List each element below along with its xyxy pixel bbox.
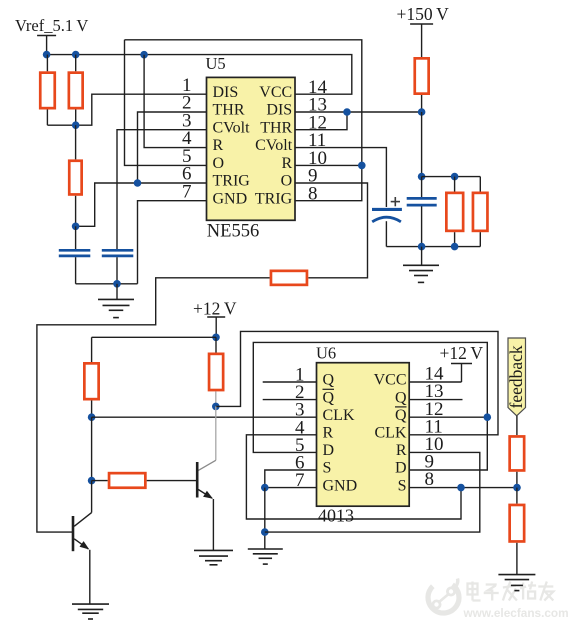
resistor R1 [46, 55, 48, 72]
node pin10 loop tie [261, 528, 269, 536]
svg-text:TRIG: TRIG [255, 190, 293, 207]
svg-text:D: D [323, 442, 335, 459]
capacitor C3 curved plate [372, 217, 401, 222]
wire R12 to ground [516, 543, 518, 575]
wire R1/R2 bottoms to pin1 DIS [47, 94, 206, 125]
wire U5 pin9 O to R4 [295, 183, 368, 278]
resistor R6 [215, 337, 217, 352]
svg-text:4013: 4013 [318, 506, 354, 526]
resistor R12 [516, 488, 518, 504]
wire Q1 collector riser [91, 481, 93, 513]
capacitor C4 [421, 177, 423, 197]
U6 pin2 Q overbar [323, 388, 335, 390]
ground symbol G1 [116, 284, 118, 300]
svg-text:Q: Q [395, 389, 407, 406]
svg-text:R: R [213, 137, 224, 154]
transistor Q1 base bar [72, 516, 75, 551]
feedback flag [508, 338, 526, 416]
wire Q2 node to U6 net A [216, 331, 498, 434]
wire feedback stem [516, 416, 518, 435]
resistor R5 [91, 337, 93, 362]
wire U6 pin12 Qbar [409, 416, 487, 418]
svg-text:DIS: DIS [213, 84, 239, 101]
svg-text:D: D [395, 460, 407, 477]
ground symbol G5 [72, 603, 109, 605]
svg-text:U5: U5 [206, 54, 226, 73]
wire R6 bottom gray [215, 391, 217, 406]
svg-text:www.elecfans.com: www.elecfans.com [463, 606, 569, 620]
wire U5 pin10 R [295, 164, 362, 166]
node snubber top [418, 173, 426, 181]
svg-text:R: R [282, 155, 293, 172]
+12V supply bar left [207, 316, 225, 318]
svg-text:Q: Q [323, 389, 335, 406]
wire snubber top rail [422, 176, 481, 178]
capacitor C1 [75, 226, 77, 249]
svg-text:GND: GND [213, 190, 248, 207]
wire Q2 emitter drop [212, 499, 214, 550]
wire R3 bottom to pin6 TRIG [76, 183, 207, 226]
resistor R7 [92, 480, 108, 482]
wire R4 to Q1 base [37, 278, 270, 532]
ground symbol G2 [421, 247, 423, 266]
watermark logo circle [422, 576, 465, 619]
wire Vref stem [46, 36, 48, 55]
svg-text:VCC: VCC [259, 84, 292, 101]
node CLK pickup [88, 413, 96, 421]
wire Vref rail to U5 VCC corner [47, 55, 352, 95]
wire U6 pin14 VCC [409, 381, 461, 383]
svg-text:NE556: NE556 [207, 222, 259, 242]
wire U5 pin12 THR tie [295, 112, 347, 130]
node THR-TRIG junction [134, 179, 142, 187]
resistor R2 [75, 55, 77, 72]
ground symbol G6 [498, 574, 535, 576]
node ground junction [113, 280, 121, 288]
wire +12V stem [215, 317, 217, 337]
wire +150V node drop [421, 112, 423, 177]
svg-text:S: S [398, 477, 407, 494]
svg-text:R: R [396, 442, 407, 459]
wire U6 pin8 S to divider [409, 487, 517, 489]
node +150V feed [418, 108, 426, 116]
capacitor C3 top plate [372, 208, 402, 211]
wire U6 pin7 GND [265, 487, 317, 489]
node Q2 collector node [212, 403, 220, 411]
resistor R3 [75, 125, 77, 159]
wire Q2 collector gray [215, 406, 217, 460]
node Vref-R2 [72, 51, 80, 59]
wire U6 pin13 stub [409, 399, 462, 401]
wire +12V rail to R5 [92, 336, 216, 338]
flip-flop U6 4013 body [317, 363, 410, 507]
svg-text:7: 7 [182, 181, 192, 202]
svg-text:8: 8 [308, 183, 318, 204]
svg-text:+150 V: +150 V [397, 4, 450, 24]
svg-text:Q: Q [395, 407, 407, 424]
node Vref-R1 [43, 51, 51, 59]
node Q1 collector node [88, 477, 96, 485]
wire GND drop to ground [264, 488, 266, 549]
capacitor C2 on U5 pin3 CVolt [117, 130, 207, 249]
op-amp U5 NE556 body [207, 77, 296, 220]
wire top line pin5-O to pins 10/8 [125, 40, 362, 201]
wire pin5 O riser [125, 40, 207, 166]
resistor R11 [510, 436, 525, 470]
node pin4 loop tie [457, 484, 465, 492]
transistor Q2 emitter lead [198, 490, 212, 499]
resistor R9 [454, 177, 456, 192]
svg-text:CLK: CLK [323, 407, 355, 424]
wire U5 pin4 R to Vref rail [144, 55, 206, 148]
watermark brand glyphs [468, 582, 554, 601]
svg-text:DIS: DIS [266, 102, 292, 119]
svg-text:O: O [213, 155, 225, 172]
transistor Q2 collector lead [198, 460, 216, 470]
wire U5 pin7 GND drop [138, 201, 207, 284]
node pin12 tie [484, 413, 492, 421]
transistor Q1 collector lead [74, 513, 91, 527]
node C4 bottom [418, 243, 426, 251]
wire U6 pin1 stub [263, 381, 317, 383]
svg-text:CVolt: CVolt [255, 137, 293, 154]
node pin10 junction [358, 162, 366, 170]
+150V supply bar [410, 23, 433, 25]
svg-text:GND: GND [323, 477, 358, 494]
svg-text:TRIG: TRIG [213, 173, 251, 190]
U6 pin12 Q overbar [395, 406, 407, 408]
svg-text:Vref_5.1 V: Vref_5.1 V [15, 16, 88, 35]
wire C3 bottom [385, 221, 387, 246]
svg-text:feedback: feedback [506, 345, 526, 408]
wire U5 pin11 CVolt [295, 148, 386, 207]
capacitor C3 electrolytic polarity + [391, 201, 400, 203]
node DIS-THR tie [343, 108, 351, 116]
svg-text:THR: THR [213, 102, 245, 119]
resistor R10 [479, 177, 481, 192]
svg-text:THR: THR [260, 119, 292, 136]
wire U6 pin6 S drop [265, 470, 317, 488]
ground symbol G3 [194, 549, 233, 551]
wire snubber bottom rail [386, 246, 480, 248]
+12V supply bar right [451, 363, 472, 365]
svg-text:+12 V: +12 V [193, 298, 237, 318]
wire Q1 emitter drop [89, 550, 91, 604]
wire U6 pin3 CLK line [92, 416, 317, 418]
node S-GND tie [261, 484, 269, 492]
Vref supply bar [37, 35, 56, 37]
svg-text:CVolt: CVolt [213, 119, 251, 136]
svg-text:O: O [281, 173, 293, 190]
wire U6 pin5 D riser to net B [253, 342, 487, 470]
node R1-R2 junction [72, 121, 80, 129]
wire U6 pin4 R under-loop [246, 435, 461, 519]
node Vref-pin4 [140, 51, 148, 59]
transistor Q2 base bar [196, 462, 199, 498]
wire U5 pin13 DIS to +150V resistor [295, 111, 422, 113]
wire R5 node drop [91, 417, 93, 480]
svg-text:VCC: VCC [374, 372, 407, 389]
svg-text:Q: Q [323, 372, 335, 389]
node R3-C1 junction [72, 223, 80, 231]
node divider junction [513, 484, 521, 492]
transistor Q1 emitter lead [74, 539, 88, 549]
svg-text:R: R [323, 425, 334, 442]
wire U6 pin10 R loop [265, 452, 480, 532]
resistor R8 [421, 24, 423, 57]
resistor R4 [271, 271, 307, 285]
wire ground link [76, 283, 138, 285]
wire +12V stem right [461, 364, 463, 383]
wire U6 pin2 stub [263, 399, 317, 401]
svg-text:U6: U6 [316, 344, 336, 363]
node R9 bottom [451, 243, 459, 251]
node +12V feed [212, 334, 220, 342]
ground symbol G4 [248, 548, 283, 550]
svg-text:CLK: CLK [375, 425, 407, 442]
svg-text:S: S [323, 460, 332, 477]
svg-text:+12 V: +12 V [440, 343, 484, 363]
wire U5 pin2 THR tie to TRIG [138, 112, 207, 183]
node R9 top [451, 173, 459, 181]
